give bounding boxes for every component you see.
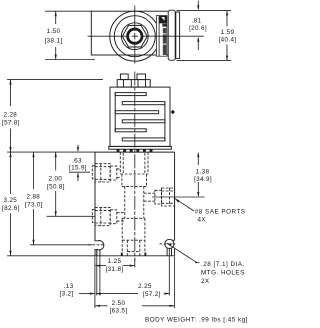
svg-text:#8 SAE PORTS: #8 SAE PORTS xyxy=(195,209,246,216)
coil connector diamond xyxy=(171,110,175,114)
left mounting hole centerline xyxy=(88,244,105,246)
top view body rectangle xyxy=(91,11,170,55)
dimension .81 top right xyxy=(177,9,232,11)
svg-text:[15.9]: [15.9] xyxy=(69,165,87,172)
coil terminal tab right xyxy=(137,74,146,80)
svg-text:1.50: 1.50 xyxy=(47,28,61,35)
svg-text:2.88: 2.88 xyxy=(27,194,41,201)
2.88 extension line to hole xyxy=(30,244,92,246)
dimension 2.00 xyxy=(55,152,57,170)
svg-text:[20.6]: [20.6] xyxy=(189,25,207,32)
dimension 2.28 xyxy=(10,80,12,106)
dimension 2.25 xyxy=(96,293,138,295)
upper left port outer boss dashed xyxy=(92,166,95,179)
top view nut hexagon xyxy=(122,25,147,47)
coil terminal tab left xyxy=(120,74,128,80)
svg-text:2X: 2X xyxy=(201,278,210,285)
coil slot bar 1 xyxy=(115,93,146,96)
dimension 1.25 xyxy=(95,265,106,267)
svg-text:1.25: 1.25 xyxy=(108,258,122,265)
right mounting hole centerline xyxy=(160,243,177,245)
svg-text:[73.0]: [73.0] xyxy=(25,202,43,209)
svg-text:[3.2]: [3.2] xyxy=(60,291,74,298)
svg-text:4X: 4X xyxy=(198,217,207,224)
body outline top edge xyxy=(95,151,175,153)
label logo sub-mark xyxy=(162,24,166,27)
cavity section 4 dashed xyxy=(121,218,123,256)
svg-text:[31.8]: [31.8] xyxy=(106,266,124,273)
right port centerline xyxy=(152,196,205,198)
top view circle 2 xyxy=(114,16,155,57)
dimension 1.38 xyxy=(197,153,199,165)
svg-text:MTG. HOLES: MTG. HOLES xyxy=(201,270,245,277)
top view label strip xyxy=(156,16,167,57)
top view horizontal centerline xyxy=(88,35,204,37)
cavity bottom square dashed xyxy=(126,240,128,256)
svg-text:2.50: 2.50 xyxy=(112,300,126,307)
leader #8 SAE PORTS xyxy=(175,198,180,202)
dimension 3.25 xyxy=(10,152,12,194)
top view connector tab xyxy=(168,10,175,60)
svg-text:[40.4]: [40.4] xyxy=(219,36,237,43)
coil slot bar 4 xyxy=(122,120,165,123)
coil terminal block xyxy=(117,80,150,88)
coil slot bar 5 xyxy=(115,129,146,132)
lower left port dashed xyxy=(95,207,110,225)
dimension 2.88 xyxy=(33,152,35,189)
right mounting hole circle xyxy=(165,239,174,248)
coil slot bar 3 xyxy=(115,111,158,114)
coil slot bar 6 xyxy=(122,138,165,141)
coil body rectangle xyxy=(110,87,170,146)
svg-text:[38.1]: [38.1] xyxy=(45,38,63,45)
coil slot left connector xyxy=(114,93,116,132)
dimension .13 xyxy=(79,293,94,295)
top view bold ring xyxy=(128,29,142,43)
body bottom edge extension line xyxy=(7,255,95,257)
left mounting hole slot walls xyxy=(96,250,98,256)
label logo black box xyxy=(159,16,167,24)
svg-text:1.59: 1.59 xyxy=(221,29,235,36)
coil base serrations xyxy=(116,149,152,152)
coil slot right connector xyxy=(164,102,166,141)
front view vertical centerline xyxy=(134,72,136,262)
top view vertical centerline xyxy=(134,6,136,64)
top view circle 3 xyxy=(121,23,148,50)
label vertical text marks xyxy=(163,28,167,33)
cavity section 2 dashed xyxy=(121,174,123,186)
cavity section 1 dashed xyxy=(119,152,121,174)
svg-text:[63.5]: [63.5] xyxy=(110,308,128,315)
coil base plate xyxy=(109,146,172,149)
2.00 extension line xyxy=(47,215,95,217)
top view coil outer circle xyxy=(110,11,160,61)
dimension .63 xyxy=(69,171,90,173)
body outline right edge with mounting notch xyxy=(172,152,175,256)
dimension 1.50 left of top view xyxy=(45,10,91,12)
dimension 1.59 right xyxy=(177,60,232,62)
svg-text:2.25: 2.25 xyxy=(138,283,152,290)
svg-text:[57.2]: [57.2] xyxy=(143,291,161,298)
svg-text:.13: .13 xyxy=(64,283,74,290)
svg-text:BODY WEIGHT: .99 lbs [.45 kg]: BODY WEIGHT: .99 lbs [.45 kg] xyxy=(145,317,248,324)
top view connector lip xyxy=(176,12,180,58)
right port dashed xyxy=(162,188,175,206)
svg-text:[34.9]: [34.9] xyxy=(194,176,212,183)
cavity section 3 dashed xyxy=(124,186,126,218)
svg-text:1.38: 1.38 xyxy=(196,168,210,175)
svg-text:.81: .81 xyxy=(192,17,202,24)
svg-text:2.28: 2.28 xyxy=(4,112,18,119)
svg-text:[50.8]: [50.8] xyxy=(47,184,65,191)
dimension 2.50 xyxy=(95,305,108,307)
right mounting hole slot walls xyxy=(166,248,168,256)
body outline left edge with mounting notch xyxy=(95,152,104,256)
leader .28 DIA mounting holes xyxy=(167,243,172,246)
svg-text:3.25: 3.25 xyxy=(4,197,18,204)
body top edge extension line xyxy=(7,151,95,153)
bottom extension lines xyxy=(94,257,96,309)
svg-text:[82.6]: [82.6] xyxy=(2,205,20,212)
coil slot bar 2 xyxy=(122,102,165,105)
cavity bottom solid ticks xyxy=(121,253,123,256)
svg-text:2.00: 2.00 xyxy=(49,176,63,183)
upper left port dashed xyxy=(95,164,110,182)
svg-text:[57.8]: [57.8] xyxy=(2,120,20,127)
svg-text:.28 [7.1] DIA,: .28 [7.1] DIA, xyxy=(201,261,245,268)
lower left port outer boss dashed xyxy=(92,210,95,223)
coil terminal extension line 2.28 xyxy=(7,79,103,81)
body outline bottom edge xyxy=(95,255,175,257)
